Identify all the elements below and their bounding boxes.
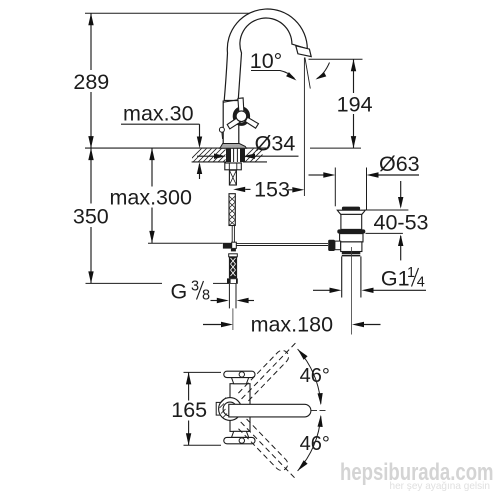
top-view body	[230, 384, 250, 432]
knob stem	[335, 241, 341, 250]
supply nut	[227, 278, 238, 283]
165 arrows	[186, 372, 191, 384]
46deg arc lower	[298, 416, 321, 471]
arrowheads	[88, 13, 403, 327]
dimension 40-53	[400, 181, 402, 207]
svg-text:max.300: max.300	[109, 186, 192, 210]
svg-text:Ø34: Ø34	[255, 132, 296, 156]
pivot hatch	[220, 398, 228, 418]
dimension 350	[90, 148, 92, 203]
289 arrows	[88, 13, 93, 25]
extension max300 bottom / rod level	[148, 242, 223, 244]
dashed swivel spout down 46	[236, 418, 301, 485]
G 3/8 label	[171, 279, 211, 304]
G3/8 arrows	[217, 298, 229, 303]
dimension G3/8 shafts	[211, 300, 218, 302]
flange	[337, 210, 365, 214]
handle spoke lower-right	[245, 117, 258, 128]
dimension 289	[90, 13, 92, 70]
svg-text:her şey ayağına gelsin: her şey ayağına gelsin	[390, 480, 491, 492]
165 extension lines	[184, 371, 222, 373]
svg-text:Ø63: Ø63	[379, 152, 420, 176]
body column	[223, 101, 239, 144]
shank through deck	[223, 149, 328, 330]
dimension max.180 shafts	[203, 324, 222, 326]
O34 arrows	[214, 154, 226, 159]
svg-text:8: 8	[202, 288, 210, 304]
svg-text:153: 153	[254, 178, 290, 202]
spout stream axis	[303, 58, 305, 197]
svg-text:46°: 46°	[300, 365, 330, 387]
O63 extension lines	[334, 168, 336, 207]
drain body upper	[341, 214, 362, 229]
pivot outer circle	[219, 398, 242, 421]
handle hub	[236, 111, 247, 122]
40-53 arrows	[398, 197, 403, 209]
pop-up rod knob	[219, 127, 224, 132]
pivot tab	[216, 402, 224, 415]
max30 arrows	[197, 137, 202, 149]
spout aerator tip	[296, 46, 311, 57]
svg-text:3: 3	[191, 279, 199, 295]
flexible hose	[229, 194, 235, 226]
bottom bands	[342, 252, 361, 254]
O34 leader shafts	[197, 155, 216, 157]
max300 arrows	[149, 148, 154, 160]
svg-text:289: 289	[73, 70, 109, 94]
dimension max.30 underline and drop	[121, 123, 200, 125]
350 arrows	[88, 148, 93, 160]
svg-text:max.30: max.30	[123, 102, 194, 126]
bottom handle bar	[224, 437, 255, 443]
svg-text:1: 1	[407, 265, 415, 281]
rod knob	[328, 240, 335, 251]
pop-up rod lower	[231, 226, 233, 243]
G1 1/4 label	[381, 265, 425, 291]
pop-up cap	[342, 207, 360, 211]
base flare	[220, 144, 247, 149]
G1 1/4 arrows	[330, 288, 342, 293]
extension line top (spout apex datum)	[85, 12, 272, 14]
drain body bottom	[341, 242, 362, 252]
extension line spout outlet level	[309, 58, 363, 60]
drain body lower	[340, 234, 363, 242]
dimension max.300	[151, 148, 153, 186]
svg-text:165: 165	[171, 398, 207, 422]
svg-text:40-53: 40-53	[374, 211, 429, 235]
165 dimension line	[188, 372, 190, 400]
dashed swivel spout up 46	[237, 336, 302, 403]
dimension G1 1/4 shafts	[313, 289, 330, 291]
max180 arrows	[221, 322, 233, 327]
svg-text:46°: 46°	[300, 433, 330, 455]
tee fitting	[223, 243, 232, 249]
stream tilted 10deg	[305, 58, 310, 89]
body collar	[223, 100, 238, 103]
dimension 194	[353, 59, 355, 93]
deck hatch	[188, 148, 269, 162]
dimension O63 shafts	[309, 174, 324, 176]
10deg leader	[251, 71, 295, 79]
supply threaded section	[229, 254, 238, 257]
dimension 153 shafts	[245, 188, 250, 190]
svg-text:4: 4	[417, 275, 425, 291]
spout top view	[229, 404, 311, 417]
spout curved tube	[224, 9, 307, 100]
46 arc arrowheads	[298, 349, 308, 360]
deck bottom line	[192, 161, 226, 163]
mounting nut	[225, 163, 242, 170]
bottom handle hub	[232, 431, 249, 437]
top handle hub	[232, 378, 249, 384]
svg-text:194: 194	[337, 93, 373, 117]
pivot inner circle	[223, 402, 237, 416]
handle ring	[234, 108, 248, 124]
svg-text:10°: 10°	[250, 49, 283, 73]
svg-text:G: G	[171, 280, 188, 304]
extension 350 bottom / G3-8 leader	[86, 282, 163, 284]
deck top line right segment	[310, 147, 361, 149]
O63 arrows	[323, 172, 335, 177]
horizontal pop-up rod to drain	[236, 243, 328, 245]
10deg right arc	[317, 63, 330, 79]
supply pipe	[228, 284, 230, 309]
tail centerline	[351, 247, 353, 335]
handle spoke up	[227, 98, 258, 129]
46deg arc upper	[298, 349, 321, 404]
svg-text:350: 350	[73, 205, 109, 229]
top handle bar	[224, 371, 255, 377]
10deg leader arrows	[286, 72, 296, 80]
deck top line	[85, 147, 267, 149]
153 arrows	[233, 187, 245, 192]
seal ring	[337, 229, 365, 233]
tailpipe	[341, 256, 343, 297]
spout tip centerline	[311, 410, 327, 412]
svg-text:G1: G1	[381, 267, 410, 291]
fitting below nut	[229, 170, 236, 185]
handle spoke lower-left	[227, 118, 240, 129]
svg-text:max.180: max.180	[251, 313, 334, 337]
194 arrows	[351, 59, 356, 71]
